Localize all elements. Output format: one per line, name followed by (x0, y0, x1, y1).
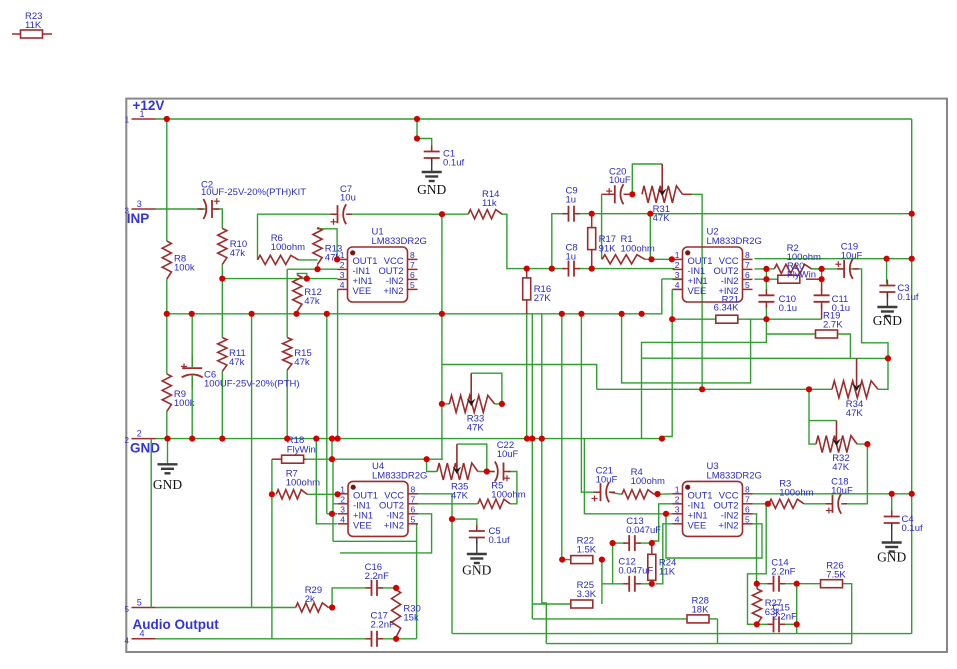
svg-text:0.1uf: 0.1uf (897, 292, 918, 303)
wire C22 right down to R5 (508, 472, 517, 504)
svg-text:8: 8 (411, 484, 416, 494)
svg-text:2.7K: 2.7K (823, 320, 843, 331)
wire C4 branch (891, 494, 893, 513)
wire C2 output to R10 (214, 209, 223, 228)
svg-text:5: 5 (410, 280, 415, 290)
wire U3 pin6 column to C14 (753, 514, 757, 584)
wire column 532 to R28 row (531, 439, 533, 619)
capacitor C19 10uF (835, 242, 862, 279)
svg-text:2: 2 (340, 494, 345, 504)
wire -IN1 row U1 (287, 268, 337, 270)
wire U4 pin8 column to bottom bus (418, 494, 452, 634)
op-amp U3 LM833DR2G (673, 461, 762, 537)
wire R31 right down through U2 (692, 194, 702, 389)
wire R28 row (532, 618, 717, 620)
svg-text:0.1uf: 0.1uf (489, 535, 510, 546)
svg-text:1: 1 (125, 116, 130, 125)
wire C8 row to U2 -IN1 (527, 268, 675, 270)
svg-text:8: 8 (410, 250, 415, 260)
wire R13 top loop to OUT1 (318, 228, 338, 260)
wire R35 wiper loop (457, 444, 487, 471)
wire R17 leads (591, 215, 593, 269)
wire C14 row (757, 583, 797, 585)
wire +12V right column to VCC row and bottom bus (911, 119, 913, 634)
ground symbol under C4 (877, 543, 906, 565)
svg-text:47k: 47k (230, 248, 246, 259)
wire R33 left column (441, 214, 444, 459)
svg-text:1: 1 (140, 109, 145, 119)
svg-text:6: 6 (410, 270, 415, 280)
wire C11 column (821, 279, 823, 319)
svg-text:5: 5 (137, 598, 142, 608)
ground symbol at GND pin (153, 439, 182, 492)
wire U4 pin3 ground column (326, 314, 328, 514)
svg-text:6: 6 (745, 504, 750, 514)
svg-text:7: 7 (411, 494, 416, 504)
svg-text:GND: GND (873, 313, 902, 328)
wire U3 pin2 column (652, 504, 673, 543)
svg-text:11k: 11k (482, 198, 497, 209)
svg-text:LM833DR2G: LM833DR2G (707, 236, 762, 247)
svg-text:47K: 47K (653, 213, 671, 224)
svg-text:47k: 47k (304, 296, 320, 307)
wire R19 branch (766, 319, 815, 334)
svg-text:1.5K: 1.5K (577, 545, 597, 556)
svg-text:INP: INP (127, 211, 150, 226)
schematic frame border (126, 99, 947, 652)
wire R32 wiper loop (809, 420, 837, 422)
svg-text:10uF: 10uF (596, 475, 618, 486)
pin 2 stub (GND) (125, 429, 156, 445)
svg-text:5: 5 (411, 514, 416, 524)
wire R11 column (221, 279, 223, 338)
capacitor C5 0.1uf (469, 525, 510, 554)
resistor R14 11k (468, 189, 502, 219)
wire C9 branch column (552, 214, 565, 269)
capacitor C13 0.047uF (623, 516, 661, 551)
svg-text:47K: 47K (832, 462, 850, 473)
wire mid bus (167, 279, 662, 314)
svg-text:3: 3 (125, 207, 130, 216)
svg-text:1: 1 (340, 484, 345, 494)
wire R3 right to C18 (804, 503, 827, 505)
svg-text:47K: 47K (467, 423, 485, 434)
wire R12 top loop (297, 273, 307, 278)
resistor R24 11K (648, 554, 677, 580)
svg-text:0.1uf: 0.1uf (443, 158, 464, 169)
wire R12 bottom to mid bus (296, 311, 298, 314)
wire C13 left column (612, 543, 614, 584)
wire C12 row left (602, 583, 626, 585)
resistor R4 100ohm (622, 467, 665, 499)
resistor R10 47k (218, 228, 247, 264)
capacitor C10 0.1u (758, 289, 797, 314)
resistor R2 100ohm (774, 243, 821, 274)
resistor R3 100ohm (769, 479, 814, 509)
svg-text:VEE: VEE (688, 285, 707, 296)
wire R25 left to ground column (532, 603, 571, 605)
svg-text:7.5K: 7.5K (826, 570, 846, 581)
wire C3 branch (886, 259, 888, 284)
op-amp U4 LM833DR2G (338, 461, 427, 537)
wire R10 bottom to +IN1 row (221, 264, 223, 278)
svg-text:+IN2: +IN2 (384, 519, 404, 530)
resistor R12 47k (293, 275, 322, 311)
svg-text:+IN2: +IN2 (718, 519, 738, 530)
wire R29 right junction to C16 (329, 588, 371, 608)
svg-text:3: 3 (137, 199, 142, 209)
svg-text:10uF: 10uF (497, 449, 519, 460)
svg-text:2.2nF: 2.2nF (773, 612, 797, 623)
pin 5 stub (125, 598, 156, 615)
svg-text:GND: GND (417, 182, 446, 197)
wire crossing row B (622, 314, 751, 383)
capacitor C14 2.2nF (768, 558, 796, 592)
potentiometer R34 47K (832, 358, 878, 419)
resistor R27 63k (752, 589, 782, 624)
net label GND (130, 441, 160, 456)
capacitor C16 2.2nF (365, 562, 389, 596)
svg-text:FlyWin: FlyWin (787, 270, 816, 281)
svg-text:91K: 91K (599, 244, 617, 255)
resistor R9 100k (162, 374, 195, 412)
resistor R26 7.5K (821, 561, 847, 588)
resistor R17 91K (588, 228, 616, 255)
wire R16 column (526, 269, 528, 439)
svg-text:LM833DR2G: LM833DR2G (707, 470, 762, 481)
svg-text:27K: 27K (534, 293, 552, 304)
svg-text:8: 8 (745, 484, 750, 494)
capacitor C2 10UF-25V-20%(PTH)KIT (198, 179, 307, 219)
wire node A row to right column (578, 213, 912, 215)
wire U2 pin4 VEE down to R21 row (662, 289, 683, 438)
resistor R5 100ohm (478, 481, 526, 509)
potentiometer R33 47K (449, 373, 494, 433)
wire +IN1 U3 ground column (584, 439, 682, 514)
capacitor C18 10uF (826, 477, 853, 514)
svg-text:100ohm: 100ohm (621, 244, 655, 255)
svg-text:6: 6 (411, 504, 416, 514)
wire U3 pin5 loop (666, 514, 762, 558)
svg-text:11K: 11K (659, 567, 676, 578)
svg-text:FlyWin: FlyWin (287, 445, 316, 456)
wire R19 right down to trim row (837, 334, 850, 358)
svg-text:1: 1 (675, 484, 680, 494)
svg-text:4: 4 (340, 280, 345, 290)
wire OUT2 row to R2 (755, 268, 775, 270)
wire C21 right to R4 (609, 492, 622, 494)
resistor R15 47k (283, 338, 312, 371)
svg-text:7: 7 (745, 260, 750, 270)
svg-text:10u: 10u (340, 193, 356, 204)
svg-text:7: 7 (410, 260, 415, 270)
wire R4 right to U3 pin1 (654, 493, 673, 496)
svg-text:7: 7 (745, 494, 750, 504)
wire U4 pin5 join (417, 524, 418, 542)
net label Audio Output (133, 617, 220, 632)
wire INP row to C2 (156, 208, 206, 210)
wire C13 row (613, 542, 652, 544)
svg-text:8: 8 (745, 250, 750, 260)
wire C20 left column to R1 left (601, 194, 603, 259)
wire R22 right column (601, 560, 603, 604)
wire U4 feedback row (333, 541, 417, 639)
svg-text:5: 5 (745, 514, 750, 524)
wire U2 VCC row (755, 258, 912, 260)
resistor R18 FlyWin (272, 435, 316, 463)
capacitor C6 100UF-25V-20%(PTH) (181, 314, 300, 439)
svg-text:15k: 15k (403, 613, 419, 624)
svg-text:6.34K: 6.34K (714, 303, 739, 314)
wire R15 column from -IN1 (286, 269, 288, 337)
svg-text:5: 5 (745, 280, 750, 290)
resistor R16 27K (523, 278, 552, 304)
svg-text:LM833DR2G: LM833DR2G (372, 236, 427, 247)
svg-text:0.047uF: 0.047uF (626, 525, 661, 536)
wire C15 row (748, 623, 797, 625)
svg-text:4: 4 (675, 280, 680, 290)
wire R32 right to C18 right (845, 444, 867, 504)
svg-text:4: 4 (125, 637, 130, 646)
wire C2 left lead (205, 208, 207, 210)
wire R22 left link (562, 559, 572, 561)
op-amp U2 LM833DR2G (673, 227, 762, 303)
wire C12 row right (638, 583, 652, 585)
svg-text:0.1u: 0.1u (779, 303, 798, 314)
resistor R8 100k (162, 241, 195, 279)
resistor R23 11K (standalone, top-left) (12, 11, 52, 38)
resistor R1 100ohm (602, 234, 655, 264)
capacitor C12 0.047uF (618, 557, 653, 592)
wire GND row (156, 438, 662, 440)
net label INP (127, 211, 150, 226)
resistor R11 47k (218, 338, 246, 372)
svg-text:GND: GND (877, 550, 906, 565)
svg-text:2: 2 (675, 260, 680, 270)
wire R34 right column (878, 358, 888, 389)
ground symbol under C1 (417, 172, 446, 197)
capacitor C9 1u (563, 186, 581, 222)
svg-text:4: 4 (675, 514, 680, 524)
svg-text:10uF: 10uF (831, 486, 853, 497)
wire bus column to output row (251, 314, 253, 608)
wire U2 pin3 row (662, 278, 683, 280)
svg-text:GND: GND (153, 477, 182, 492)
pin 4 stub (Audio Output) (125, 629, 156, 646)
svg-text:2k: 2k (305, 594, 315, 605)
capacitor C22 10uF (489, 440, 519, 482)
svg-text:3.3K: 3.3K (577, 589, 597, 600)
wire R18 left column to R7 and pin4 row (271, 459, 273, 639)
wire bus drop to C21 (581, 314, 595, 492)
resistor R20 FlyWin (778, 261, 822, 283)
svg-text:10uF: 10uF (609, 175, 631, 186)
svg-text:+IN2: +IN2 (383, 285, 403, 296)
capacitor C11 0.1u (814, 289, 851, 314)
resistor R29 2k (296, 585, 329, 612)
svg-text:VEE: VEE (353, 519, 372, 530)
wire R6 left to C7 row (258, 214, 338, 260)
wire C17 node to feedback column (396, 638, 417, 640)
svg-text:1: 1 (340, 250, 345, 260)
capacitor C20 10uF (602, 167, 631, 205)
wire OUT2/-IN2 tie column with C10 (765, 269, 767, 319)
wire R9 column (166, 314, 168, 374)
svg-text:47K: 47K (451, 491, 469, 502)
svg-text:47k: 47k (294, 357, 310, 368)
svg-text:100ohm: 100ohm (779, 488, 813, 499)
svg-text:VEE: VEE (688, 519, 707, 530)
svg-text:LM833DR2G: LM833DR2G (372, 470, 427, 481)
resistor R30 15k (392, 590, 421, 637)
wire C16 right to R30 top (379, 587, 396, 589)
svg-text:2: 2 (125, 436, 130, 445)
resistor R19 2.7K (816, 311, 844, 339)
resistor R25 3.3K (571, 580, 597, 608)
wire R24 leads (651, 543, 653, 584)
svg-text:2.2nF: 2.2nF (371, 620, 395, 631)
potentiometer R32 47K (816, 421, 857, 473)
svg-text:3: 3 (340, 504, 345, 514)
svg-text:2.2nF: 2.2nF (771, 567, 795, 578)
wire bottom row inner (546, 643, 851, 645)
wire R9 bottom to GND row (166, 412, 168, 439)
wire U3 OUT2 row to R3 (753, 503, 769, 505)
wire R33 row (442, 403, 502, 405)
wire R31 output row to R34 (597, 388, 832, 390)
potentiometer R35 47K (437, 444, 478, 501)
capacitor C4 0.1uf (884, 511, 923, 543)
wire pin4 row to C17 (155, 638, 370, 640)
wire R8 column from +12V (166, 119, 168, 241)
resistor R6 100ohm (258, 233, 306, 265)
wire C14-C15 right column (796, 584, 798, 634)
wire R21 row (672, 318, 821, 320)
wire R35 left column to R18 row (427, 459, 438, 471)
svg-text:3: 3 (340, 270, 345, 280)
resistor R7 100ohm (269, 469, 320, 499)
svg-text:100k: 100k (174, 263, 195, 274)
wire R7 right to U4 pin1 (307, 493, 338, 495)
capacitor C15 2.2nF (768, 603, 797, 633)
resistor R13 47k (313, 228, 342, 265)
wire node A drop to R1 right (649, 214, 651, 260)
wire R18 row (306, 458, 443, 460)
svg-text:2: 2 (675, 494, 680, 504)
svg-text:3: 3 (675, 270, 680, 280)
wire +IN1 row U1 (222, 278, 337, 280)
capacitor C3 0.1uf (879, 280, 918, 308)
svg-text:3: 3 (675, 504, 680, 514)
wire C19 output to trim row (850, 269, 888, 359)
wire C17 right to R30 bottom (379, 638, 396, 640)
svg-text:100ohm: 100ohm (491, 490, 525, 501)
resistor R22 1.5K (571, 536, 597, 564)
svg-text:Audio Output: Audio Output (133, 617, 220, 632)
wire R3 left column to C15 row (748, 504, 767, 625)
wire R5 row to U4 OUT2 (418, 503, 478, 505)
wire C22 row (478, 471, 494, 473)
svg-text:1u: 1u (566, 195, 577, 206)
svg-text:GND: GND (462, 563, 491, 578)
wire R26 row (797, 583, 821, 585)
svg-text:47K: 47K (846, 408, 864, 419)
wire bus drop to R22 (561, 314, 563, 560)
wire R28 right column to bottom rows (717, 619, 719, 644)
resistor R28 18K (687, 596, 709, 623)
net label +12V (133, 98, 165, 113)
capacitor C8 1u (563, 243, 581, 277)
ground symbol under C3 (873, 307, 902, 328)
svg-text:VEE: VEE (353, 285, 372, 296)
wire GND row link to R18 row (331, 439, 333, 460)
svg-text:0.1uf: 0.1uf (902, 523, 923, 534)
wire feedback jog to trim row (642, 334, 767, 358)
wire U4 pin6 row going down (340, 514, 432, 553)
svg-text:10UF-25V-20%(PTH)KIT: 10UF-25V-20%(PTH)KIT (201, 187, 306, 198)
wire R2 right down to R20 node (812, 269, 822, 279)
wire R26 right column to bottom row (842, 584, 851, 644)
wire R2 right to C19 (812, 268, 844, 270)
wire trim row left column to GND row (641, 358, 643, 438)
svg-text:100UF-25V-20%(PTH): 100UF-25V-20%(PTH) (204, 379, 300, 390)
svg-text:+12V: +12V (133, 98, 165, 113)
wire R33 right loop to row (442, 365, 597, 390)
wire R6 right / R13 bottom to -IN1 junction (299, 260, 318, 269)
wire R15 bottom to GND row (286, 370, 288, 439)
svg-text:18K: 18K (692, 605, 710, 616)
capacitor C1 0.1uf (414, 119, 465, 172)
svg-text:47k: 47k (229, 357, 245, 368)
wire VEE U1 column to GND row (337, 289, 339, 438)
wire column 542 to bottom row (542, 439, 547, 644)
svg-text:1: 1 (675, 250, 680, 260)
wire U4 pin3 row (327, 513, 338, 515)
capacitor C7 10u (331, 184, 356, 225)
wire R1 right to U2 pin1 (645, 258, 672, 260)
svg-text:6: 6 (745, 270, 750, 280)
pin 1 stub (+12V) (125, 109, 156, 125)
wire +12V rail (156, 118, 912, 120)
wire U3 VEE column (656, 524, 673, 584)
wire U3 VCC row to +12V column (753, 493, 912, 495)
op-amp U1 LM833DR2G (338, 227, 427, 303)
wire R34 left / R32 left column (809, 389, 816, 444)
wire R14 right down to C8 row (502, 214, 527, 268)
wire pin5 row to R29 (155, 607, 296, 609)
svg-text:100ohm: 100ohm (271, 242, 305, 253)
wire U4 VEE column (316, 439, 337, 524)
potentiometer R31 47K (642, 164, 692, 224)
wire trim row (R34 wiper net) (642, 357, 889, 359)
pin 3 stub (INP) (125, 199, 156, 216)
resistor R21 6.34K (714, 295, 739, 324)
wire R11 bottom to GND row (221, 371, 223, 438)
wire R31 wiper loop (632, 164, 662, 194)
svg-text:4: 4 (340, 514, 345, 524)
ground symbol under C5 (462, 554, 491, 578)
wire -IN2 row to R20 (755, 278, 778, 280)
wire bus drop 542 (541, 314, 543, 439)
svg-text:2.2nF: 2.2nF (365, 571, 389, 582)
wire bottom bus row (452, 633, 911, 635)
wire C7 right to R14 (346, 213, 468, 215)
svg-text:100ohm: 100ohm (631, 476, 665, 487)
svg-text:1u: 1u (566, 252, 577, 263)
svg-text:5: 5 (125, 605, 130, 614)
svg-text:2: 2 (340, 260, 345, 270)
wire bus drop 532 (531, 314, 533, 439)
